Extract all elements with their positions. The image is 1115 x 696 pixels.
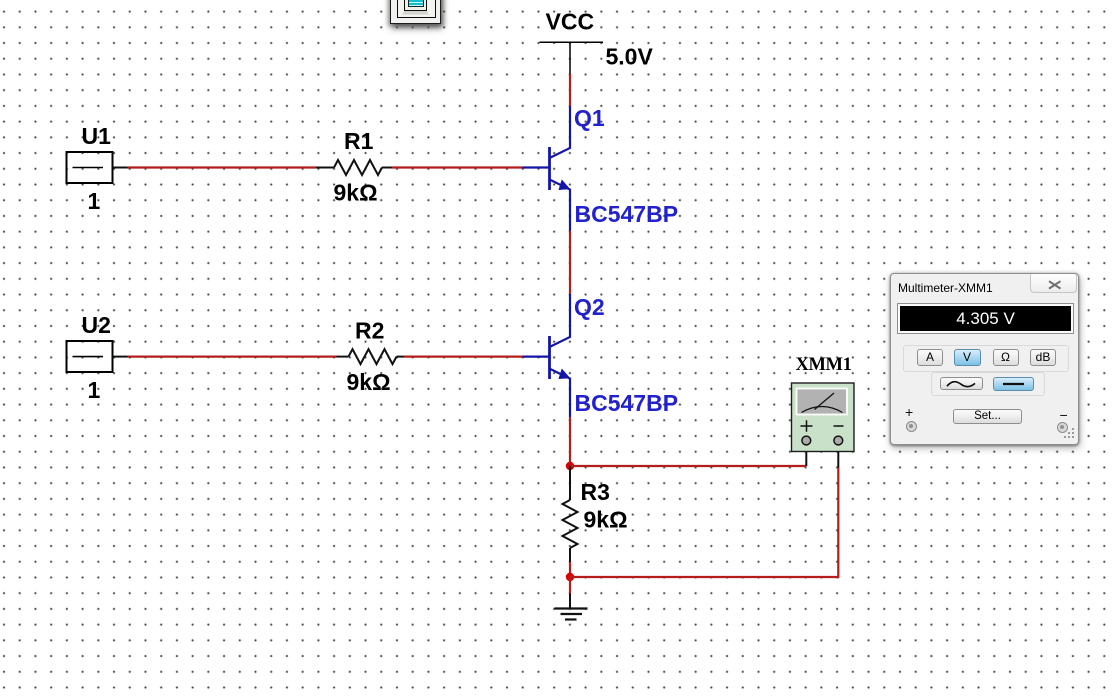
XMM1 plus terminal [802, 436, 811, 445]
window plus terminal [906, 421, 917, 432]
ground symbol [555, 609, 588, 620]
svg-text:R1: R1 [344, 128, 374, 154]
plus terminal label [905, 404, 913, 420]
resistor R2 [349, 349, 397, 364]
mode group box [903, 345, 1069, 372]
multimeter window Multimeter-XMM1 [890, 273, 1079, 445]
svg-text:U1: U1 [82, 123, 112, 149]
svg-text:9kΩ: 9kΩ [584, 507, 628, 533]
window close button [1030, 274, 1077, 293]
R3 label [581, 479, 610, 505]
button V selected [954, 349, 981, 366]
U1 label [82, 123, 112, 149]
svg-text:Q1: Q1 [574, 105, 605, 131]
wire Q1 emitter to Q2 collector [569, 231, 571, 294]
toolbar icon (clipped at top) [382, 0, 448, 30]
R3 value 9k ohm [584, 507, 628, 533]
svg-text:9kΩ: 9kΩ [334, 180, 378, 206]
button dB [1030, 349, 1056, 366]
Q1 label [574, 105, 605, 131]
svg-text:1: 1 [88, 377, 101, 403]
transistor Q2 [523, 294, 571, 417]
DC button selected [993, 377, 1034, 391]
svg-text:Q2: Q2 [574, 294, 605, 320]
wire Q2 emitter to node A [569, 417, 571, 466]
U1 pin 1 label [88, 188, 101, 214]
signal group box [931, 372, 1045, 396]
window title [898, 281, 993, 295]
button Ohm [993, 349, 1019, 366]
svg-text:VCC: VCC [546, 9, 595, 35]
Q2 label [574, 294, 605, 320]
transistor Q1 [523, 106, 571, 231]
Q1 value BC547BP [575, 201, 679, 227]
svg-text:1: 1 [88, 188, 101, 214]
R1 value 9k ohm [334, 180, 378, 206]
R1 label [344, 128, 374, 154]
wire R1 to Q1 base [382, 167, 523, 169]
U2 pin 1 label [88, 377, 101, 403]
button A [917, 349, 943, 366]
svg-text:R3: R3 [581, 479, 610, 505]
svg-text:U2: U2 [82, 312, 111, 338]
XMM1 label [796, 355, 852, 375]
XMM1 minus terminal [834, 436, 843, 445]
resistor R1 [334, 160, 382, 175]
resize grip [1063, 427, 1076, 440]
VCC net label [546, 9, 595, 35]
node B junction [566, 573, 574, 581]
connector U1 [67, 152, 113, 183]
Set button [953, 409, 1022, 424]
wire U1 to R1 [113, 167, 335, 169]
wire R3 to node B [569, 562, 571, 577]
wire U2 to R2 [113, 356, 349, 358]
U2 label [82, 312, 111, 338]
minus terminal label [1060, 407, 1068, 423]
wire node B to XMM1 minus terminal [570, 445, 838, 577]
wire R2 to Q2 base [397, 356, 523, 358]
measurement display 4.305 V [897, 303, 1074, 334]
svg-text:BC547BP: BC547BP [575, 201, 679, 227]
connector U2 [67, 341, 113, 372]
R2 value 9k ohm [347, 369, 391, 395]
wire VCC to Q1 collector [569, 74, 571, 106]
VCC power symbol [540, 42, 604, 74]
wire node B to ground [569, 577, 571, 609]
multimeter XMM1 instrument icon [792, 383, 855, 452]
VCC value 5.0V [606, 44, 654, 70]
window minus terminal [1057, 422, 1068, 433]
svg-text:9kΩ: 9kΩ [347, 369, 391, 395]
svg-text:5.0V: 5.0V [606, 44, 654, 70]
svg-text:XMM1: XMM1 [796, 355, 852, 375]
Q2 value BC547BP [575, 390, 679, 416]
resistor R3 [563, 466, 578, 562]
svg-text:R2: R2 [355, 318, 384, 344]
AC button [940, 377, 983, 391]
node A junction [566, 462, 574, 470]
wire node A to XMM1 plus terminal [570, 445, 806, 466]
svg-text:BC547BP: BC547BP [575, 390, 679, 416]
R2 label [355, 318, 384, 344]
